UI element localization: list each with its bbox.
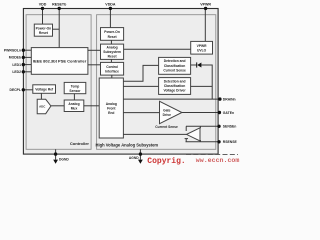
High Voltage Analog Subsystem box xyxy=(97,15,216,150)
pin DECPL xyxy=(23,89,33,91)
svg-text:High Voltage Analog Subsystem: High Voltage Analog Subsystem xyxy=(96,143,159,148)
svg-text:RESETb: RESETb xyxy=(52,3,67,7)
wire VDD down to POR1 xyxy=(42,9,44,25)
wire Gate Drive to GATEn xyxy=(182,112,220,114)
ground AGND xyxy=(129,149,143,164)
wire VPWR down to UVLO xyxy=(204,9,206,42)
svg-text:VPWR: VPWR xyxy=(197,44,208,48)
svg-text:MODEb: MODEb xyxy=(9,56,21,60)
wire VDDA down to POR2 xyxy=(109,9,111,28)
svg-text:Power-On: Power-On xyxy=(36,26,52,30)
pin MODEb xyxy=(23,56,31,58)
svg-text:Interface: Interface xyxy=(105,69,119,73)
watermark dashed line xyxy=(186,153,238,155)
svg-text:Temp: Temp xyxy=(71,84,80,88)
svg-text:Reset: Reset xyxy=(39,31,49,35)
wire Temp Sensor to Analog Mux xyxy=(73,94,75,100)
wire Voltage Ref to ADC xyxy=(40,93,42,99)
block: Temp Sensor xyxy=(64,82,86,93)
block: VPWR UVLO xyxy=(191,41,213,54)
svg-text:DGND: DGND xyxy=(59,158,69,162)
svg-text:ww.eccn.com: ww.eccn.com xyxy=(196,157,240,164)
svg-text:LED2: LED2 xyxy=(12,70,21,74)
pin RSENSE xyxy=(217,140,220,143)
block: Power-On Reset (controller) xyxy=(34,24,52,36)
svg-text:Power-On: Power-On xyxy=(104,30,120,34)
svg-text:Sensor: Sensor xyxy=(69,89,81,93)
svg-text:Current Sense: Current Sense xyxy=(163,68,186,72)
svg-text:Front: Front xyxy=(107,107,116,111)
Controller subsystem box xyxy=(26,15,91,150)
pin VPWR xyxy=(204,7,207,10)
svg-text:DRAINn: DRAINn xyxy=(223,97,236,101)
op-amp Current Sense (points left) xyxy=(187,128,201,141)
block: Detection and Classification Voltage Driver xyxy=(159,78,191,95)
wire Current Sense amp output to AFE xyxy=(123,133,186,135)
svg-text:ADC: ADC xyxy=(39,104,46,108)
svg-text:Current Sense: Current Sense xyxy=(155,125,178,129)
svg-text:Mux: Mux xyxy=(71,107,78,111)
svg-text:VDD: VDD xyxy=(39,3,47,7)
pin LED1 xyxy=(23,64,31,66)
ADC converter (pentagon) xyxy=(37,99,51,113)
pin SENSEn xyxy=(217,125,220,128)
svg-text:Control: Control xyxy=(106,65,118,69)
svg-text:PWRGDLn: PWRGDLn xyxy=(4,49,21,53)
svg-text:DECPL: DECPL xyxy=(10,88,22,92)
svg-text:Analog: Analog xyxy=(106,102,117,106)
wire Det+Class Voltage Driver to DRAIN rail xyxy=(191,85,213,87)
wire AFE to Detection and Classification Current Sense (step) xyxy=(123,65,158,81)
wire Analog Mux to Analog Front End xyxy=(84,105,99,107)
block: Voltage Ref xyxy=(33,85,56,94)
block: Analog Front End xyxy=(99,78,123,138)
pin VDDA xyxy=(109,7,112,10)
svg-text:Classification: Classification xyxy=(164,84,185,88)
wire DRAINn rail xyxy=(123,98,219,100)
wire SENSEn tap xyxy=(185,126,187,131)
block: Detection and Classification Current Sense xyxy=(159,57,191,74)
svg-text:Copyrig.: Copyrig. xyxy=(147,157,185,166)
wire AFE to Gate Drive input xyxy=(123,112,159,114)
pin DRAINn xyxy=(218,97,221,100)
block: Analog Subsystem Reset xyxy=(101,44,124,59)
svg-text:Detection and: Detection and xyxy=(164,79,186,83)
svg-text:UVLO: UVLO xyxy=(197,49,207,53)
svg-text:AGND: AGND xyxy=(129,156,139,160)
wire RSENSE tap T xyxy=(185,138,188,140)
wire POR2 to Analog Subsystem Reset xyxy=(110,40,112,44)
svg-text:Detection and: Detection and xyxy=(164,59,186,63)
wire Control Interface to AFE xyxy=(111,75,113,78)
svg-text:Voltage Driver: Voltage Driver xyxy=(164,89,187,93)
svg-text:Subsystem: Subsystem xyxy=(103,50,121,54)
wire SENSEn to amp xyxy=(186,125,219,127)
svg-text:Drive: Drive xyxy=(163,113,171,117)
wire diode to DRAIN rail xyxy=(201,65,212,99)
wire RESETb down to IEEE controller xyxy=(58,9,60,48)
wire ADC to Analog Mux xyxy=(51,105,64,107)
svg-text:Reset: Reset xyxy=(108,55,118,59)
svg-text:SENSEn: SENSEn xyxy=(223,125,237,129)
block: Power-On Reset (analog subsystem) xyxy=(101,28,124,41)
op-amp Gate Drive xyxy=(160,101,182,123)
wire amp corner tap to RSENSE rail xyxy=(199,140,201,142)
wire ASR to VPWR UVLO xyxy=(124,48,191,50)
svg-text:Reset: Reset xyxy=(108,35,118,39)
wire AFE to Detection and Classification Voltage Driver xyxy=(123,85,158,87)
svg-text:VPWR: VPWR xyxy=(200,3,211,7)
outer chip box xyxy=(23,9,218,155)
wire RSENSE tap vertical xyxy=(185,139,187,142)
pin LED2 xyxy=(23,71,31,73)
wire ASR to Control Interface xyxy=(110,59,112,62)
svg-text:Controller: Controller xyxy=(70,141,90,146)
svg-text:LED1: LED1 xyxy=(12,63,21,67)
diode D1 (cathode left) xyxy=(197,62,202,67)
wire POR1 to RESETb line xyxy=(53,28,60,30)
svg-text:IEEE 802.3bt PSE Controller: IEEE 802.3bt PSE Controller xyxy=(33,59,87,64)
block: Analog Mux xyxy=(64,100,84,112)
svg-text:Classification: Classification xyxy=(164,64,185,68)
svg-text:Gate: Gate xyxy=(163,109,170,113)
wire amp corner tap to SENSE rail xyxy=(199,126,201,128)
pin RESETb xyxy=(58,7,61,10)
wire RSENSE rail to amp xyxy=(186,141,220,143)
svg-text:Analog: Analog xyxy=(68,102,79,106)
svg-text:Voltage Ref: Voltage Ref xyxy=(35,87,54,91)
ground DGND xyxy=(53,149,69,164)
pin VDD xyxy=(41,7,44,10)
svg-text:Analog: Analog xyxy=(107,45,118,49)
svg-text:End: End xyxy=(108,111,114,115)
wire IEEE controller to Control Interface xyxy=(88,64,101,66)
wire Det+Class Current Sense to diode xyxy=(191,64,197,66)
svg-text:GATEn: GATEn xyxy=(223,111,234,115)
pin GATEn xyxy=(218,111,221,114)
svg-text:VDDA: VDDA xyxy=(105,3,116,7)
pin PWRGDLn xyxy=(23,49,31,51)
block: IEEE 802.3bt PSE Controller U1 xyxy=(31,48,88,75)
wire IEEE controller to Analog Subsystem Reset xyxy=(88,49,101,51)
block: Control Interface xyxy=(101,62,124,75)
svg-text:RSENSE: RSENSE xyxy=(223,140,238,144)
